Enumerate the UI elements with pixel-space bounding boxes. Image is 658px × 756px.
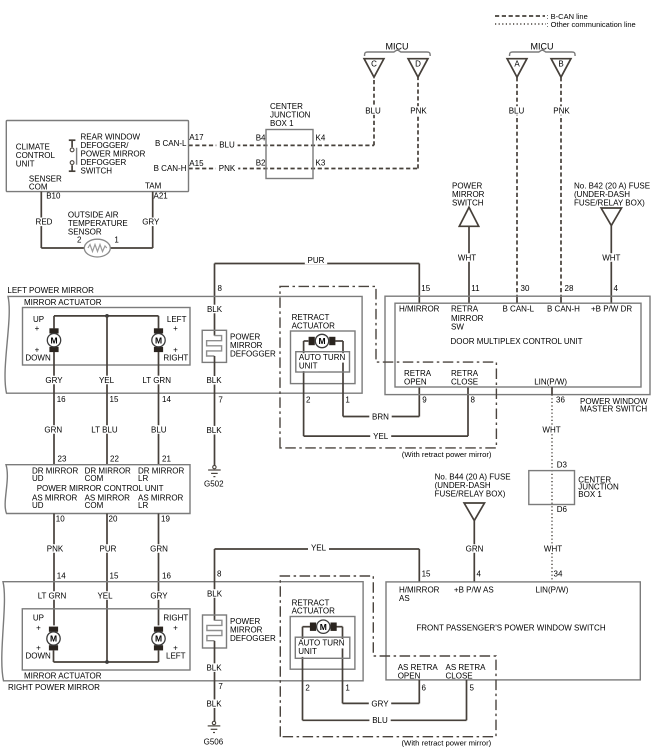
svg-text:5: 5	[470, 684, 475, 693]
svg-text:B: B	[558, 59, 563, 68]
svg-text:B10: B10	[46, 192, 61, 201]
wire YEL (defogger pin 8 to H/MIRROR AS pin 15)	[214, 549, 216, 621]
svg-text:GRY: GRY	[371, 699, 389, 708]
svg-text:A17: A17	[189, 133, 204, 142]
wire label BLK (below defogger right)	[203, 663, 224, 672]
wire label PNK (MICU D)	[407, 106, 429, 115]
svg-text:RETRA: RETRA	[451, 305, 479, 314]
svg-text:BRN: BRN	[372, 412, 389, 421]
svg-text:B CAN-H: B CAN-H	[154, 164, 187, 173]
wire label GRN	[42, 425, 64, 434]
connector triangle D	[408, 59, 428, 77]
retract motor wires (top)	[304, 340, 309, 342]
power window master switch outer box	[385, 296, 650, 394]
svg-text:POWER MIRROR CONTROL UNIT: POWER MIRROR CONTROL UNIT	[37, 484, 164, 493]
svg-text:FUSE/RELAY BOX): FUSE/RELAY BOX)	[574, 199, 645, 208]
junction dot (left actuator)	[105, 314, 109, 318]
svg-text:UP: UP	[33, 614, 44, 623]
motor stub down-left (right)	[53, 650, 55, 662]
svg-text:14: 14	[162, 395, 171, 404]
door multiplex control unit inner box	[395, 303, 641, 387]
wire BLK (defogger to G502)	[214, 356, 216, 465]
motor M right/left (right mirror)	[154, 627, 163, 632]
svg-text:LEFT: LEFT	[166, 652, 186, 661]
svg-text:GRN: GRN	[466, 544, 484, 553]
svg-text:G502: G502	[204, 480, 224, 489]
wire label WHT (pin 11)	[455, 253, 479, 262]
svg-text:14: 14	[57, 572, 66, 581]
svg-text:8: 8	[218, 284, 223, 293]
svg-text:A: A	[514, 59, 520, 68]
wire YEL (retract 2 to RETRA CLOSE 8)	[304, 435, 468, 437]
svg-text:AS: AS	[399, 594, 410, 603]
svg-text:30: 30	[521, 284, 530, 293]
svg-text:8: 8	[217, 570, 222, 579]
svg-text:BLU: BLU	[219, 141, 235, 150]
svg-text:COM: COM	[85, 474, 104, 483]
wire B-CAN-H PNK (climate A15 to K3 to MICU D)	[189, 168, 419, 170]
svg-text:PNK: PNK	[410, 106, 427, 115]
svg-text:RETRA: RETRA	[451, 369, 479, 378]
svg-text:BLK: BLK	[206, 700, 222, 709]
svg-text:SENSOR: SENSOR	[68, 228, 102, 237]
auto turn unit label (top)	[298, 353, 346, 362]
wire WHT (power mirror switch to pin 11)	[468, 226, 470, 303]
boundary (with retract power mirror) top	[280, 286, 496, 448]
wire LT GRN column (right motor down)	[158, 352, 160, 465]
retract motor wires (bottom)	[303, 626, 311, 628]
svg-text:CLOSE: CLOSE	[451, 378, 478, 387]
svg-text:ACTUATOR: ACTUATOR	[292, 321, 335, 330]
brace MICU 2	[510, 50, 576, 56]
wire WHT (fuse B42 to pin 4)	[610, 226, 612, 304]
wire label LT GRN	[140, 376, 174, 385]
svg-text:6: 6	[422, 684, 427, 693]
svg-text:G506: G506	[204, 738, 224, 747]
wire label YEL (retract)	[370, 432, 391, 441]
svg-text:M: M	[155, 634, 162, 644]
fuse No. B42 triangle	[601, 208, 621, 226]
center junction box 1 (bottom)	[529, 471, 575, 505]
svg-text:PNK: PNK	[553, 106, 570, 115]
wire label BLK (above defogger right)	[204, 589, 225, 598]
wire pin 8 (RETRA CLOSE)	[467, 387, 469, 436]
svg-text:UD: UD	[32, 474, 44, 483]
motor stub up-left	[53, 316, 55, 329]
svg-text:GRY: GRY	[142, 218, 160, 227]
svg-text:BLK: BLK	[207, 589, 223, 598]
svg-text:10: 10	[56, 515, 65, 524]
wire label BLU (MICU C)	[362, 106, 383, 115]
svg-text:M: M	[320, 622, 327, 632]
svg-text:UNIT: UNIT	[16, 159, 35, 168]
svg-text:23: 23	[58, 455, 67, 464]
svg-text:DEFOGGER: DEFOGGER	[230, 634, 276, 643]
left power mirror box	[5, 296, 362, 393]
power mirror control unit box	[5, 465, 190, 514]
motor M up/down (left mirror)	[49, 328, 58, 333]
rail wire (right actuator)	[54, 661, 159, 663]
svg-text:+: +	[35, 324, 40, 333]
svg-text:21: 21	[162, 455, 171, 464]
brace MICU 1	[365, 50, 431, 56]
wire GRN (fuse B44 to +B P/W AS pin 4)	[473, 521, 475, 582]
svg-text:DOOR MULTIPLEX CONTROL UNIT: DOOR MULTIPLEX CONTROL UNIT	[450, 337, 582, 346]
svg-text:BLK: BLK	[206, 664, 222, 673]
svg-text:M: M	[155, 335, 162, 345]
wire label GRN (fuse)	[463, 544, 485, 553]
svg-text:(With retract power mirror): (With retract power mirror)	[402, 739, 492, 748]
svg-text:+: +	[173, 324, 178, 333]
svg-text:8: 8	[471, 396, 476, 405]
svg-text:M: M	[50, 335, 57, 345]
svg-text:ACTUATOR: ACTUATOR	[292, 606, 335, 615]
svg-text:SWITCH: SWITCH	[81, 166, 113, 175]
connector triangle C	[364, 59, 384, 77]
wire GRN column	[158, 514, 160, 626]
wire RED (B10 to sensor pin 2)	[40, 192, 42, 248]
connector triangle B	[551, 59, 571, 77]
svg-text:28: 28	[565, 284, 574, 293]
wire LIN(P/W) WHT dotted (pin 36 to D3/D6 to pin 34)	[551, 387, 553, 395]
wire label GRY (right)	[148, 591, 170, 600]
svg-text:D3: D3	[557, 461, 568, 470]
svg-text:19: 19	[161, 515, 170, 524]
svg-text:CLOSE: CLOSE	[446, 672, 473, 681]
svg-text:OPEN: OPEN	[398, 672, 421, 681]
ground G506	[212, 721, 215, 724]
auto turn unit label (bottom)	[297, 639, 345, 648]
svg-text:15: 15	[110, 572, 119, 581]
svg-text:PNK: PNK	[47, 544, 64, 553]
wire label GRY	[43, 376, 65, 385]
wire B-CAN-L BLU (MICU A to pin 30)	[516, 77, 518, 296]
wire label BLU (MICU A)	[506, 106, 527, 115]
svg-text:11: 11	[471, 284, 480, 293]
svg-text:4: 4	[614, 284, 619, 293]
wire label PUR (column)	[97, 544, 119, 553]
svg-text:RIGHT POWER MIRROR: RIGHT POWER MIRROR	[8, 683, 100, 692]
svg-text:K3: K3	[316, 159, 326, 168]
svg-text:WHT: WHT	[458, 253, 476, 262]
svg-text:A21: A21	[154, 192, 169, 201]
svg-text:+: +	[173, 623, 178, 632]
svg-text:UD: UD	[32, 501, 44, 510]
svg-text:LT GRN: LT GRN	[38, 591, 67, 600]
wire label YEL	[96, 376, 117, 385]
power mirror defogger (left)	[202, 330, 226, 362]
svg-text:LR: LR	[138, 474, 148, 483]
wire label LT BLU	[88, 425, 121, 434]
ground G502	[213, 465, 216, 468]
retract actuator box (bottom)	[290, 617, 355, 670]
svg-text:YEL: YEL	[311, 543, 327, 552]
svg-text:BLK: BLK	[206, 426, 222, 435]
svg-text:YEL: YEL	[97, 591, 113, 600]
svg-text:BLK: BLK	[206, 376, 222, 385]
svg-text:SWITCH: SWITCH	[452, 199, 484, 208]
boundary (with retract power mirror) bottom	[280, 576, 496, 737]
svg-text:RIGHT: RIGHT	[163, 614, 188, 623]
svg-text:2: 2	[306, 396, 311, 405]
wire PNK column	[53, 514, 55, 626]
svg-text:BLU: BLU	[151, 425, 167, 434]
wire label PNK	[44, 544, 66, 553]
wire label YEL (right)	[95, 591, 116, 600]
auto turn unit box (top)	[296, 352, 350, 372]
wire BRN (retract 1 to RETRA OPEN 9)	[343, 416, 419, 418]
mirror actuator box (left)	[23, 308, 191, 366]
svg-text:16: 16	[57, 395, 66, 404]
svg-text:22: 22	[110, 455, 119, 464]
rear window defogger switch symbol	[69, 139, 76, 141]
fuse No. B44 triangle	[464, 503, 484, 521]
auto turn unit box (bottom)	[295, 637, 350, 658]
svg-text:15: 15	[110, 395, 119, 404]
svg-text:DOWN: DOWN	[26, 652, 52, 661]
wire YEL column (rail down)	[106, 316, 108, 465]
svg-text:BLK: BLK	[207, 305, 223, 314]
legend other communication line sample	[495, 23, 546, 25]
svg-text:7: 7	[218, 682, 223, 691]
svg-text:FUSE/RELAY BOX): FUSE/RELAY BOX)	[435, 489, 506, 498]
legend B-CAN line sample	[495, 15, 545, 17]
right power mirror box	[2, 582, 363, 681]
wire pin 6 (AS RETRA OPEN)	[418, 680, 420, 704]
svg-text:SW: SW	[451, 323, 464, 332]
wire pin 9 (RETRA OPEN)	[418, 387, 420, 417]
retract motor (top)	[309, 337, 315, 345]
wire BLU (retract 2 to AS RETRA CLOSE 5)	[303, 719, 467, 721]
svg-text:1: 1	[345, 396, 350, 405]
svg-text:A15: A15	[189, 159, 204, 168]
wire label BLK (to ground G506)	[203, 699, 224, 708]
svg-text:LIN(P/W): LIN(P/W)	[534, 377, 567, 386]
svg-text:GRY: GRY	[45, 376, 63, 385]
svg-text:15: 15	[421, 284, 430, 293]
wire label RED	[33, 218, 55, 227]
svg-text:1: 1	[345, 683, 350, 692]
svg-text:DEFOGGER: DEFOGGER	[230, 350, 276, 359]
motor M left/right (left mirror)	[154, 328, 163, 333]
svg-text:36: 36	[556, 396, 565, 405]
svg-text:(With retract power mirror): (With retract power mirror)	[402, 450, 492, 459]
wire label YEL (net)	[308, 543, 329, 552]
svg-text:2: 2	[305, 683, 310, 692]
center junction box 1 (top)	[266, 130, 313, 179]
svg-text:RED: RED	[36, 218, 53, 227]
svg-text:B CAN-L: B CAN-L	[503, 305, 535, 314]
svg-text:UNIT: UNIT	[299, 361, 318, 370]
svg-text:9: 9	[422, 396, 427, 405]
wire label BLU (B-CAN-L left)	[216, 141, 237, 150]
wire label WHT (pin 4)	[599, 253, 623, 262]
svg-text:BOX 1: BOX 1	[270, 119, 294, 128]
wire label WHT (LIN upper)	[540, 425, 564, 434]
climate control unit box	[6, 121, 188, 192]
wire B-CAN-L BLU (climate A17 to K4 to MICU C)	[189, 144, 375, 146]
wire B-CAN-H PNK (MICU B to pin 28)	[560, 77, 562, 296]
wire PUR (defogger pin 8 to H/MIRROR pin 15)	[214, 264, 216, 336]
connector triangle A	[507, 59, 527, 77]
svg-text:UP: UP	[33, 315, 44, 324]
svg-text:K4: K4	[316, 134, 326, 143]
power mirror switch connector triangle	[459, 207, 478, 226]
svg-text:OPEN: OPEN	[404, 378, 427, 387]
svg-text:PUR: PUR	[308, 256, 325, 265]
wire PUR column	[106, 514, 108, 663]
svg-text:BLU: BLU	[365, 106, 381, 115]
svg-text:2: 2	[77, 236, 82, 245]
wire label BRN	[369, 412, 391, 421]
wire label BLK (to ground G502)	[203, 426, 224, 435]
svg-text:15: 15	[422, 570, 431, 579]
wire GRY (A21 to sensor pin 1)	[152, 192, 154, 248]
outside air temperature sensor (thermistor)	[84, 239, 110, 257]
svg-text:+B P/W AS: +B P/W AS	[454, 586, 494, 595]
svg-text:WHT: WHT	[542, 425, 560, 434]
power mirror defogger (right)	[203, 615, 227, 648]
svg-text:YEL: YEL	[373, 432, 389, 441]
svg-text:C: C	[371, 59, 377, 68]
svg-text:D6: D6	[557, 505, 568, 514]
svg-text:COM: COM	[29, 183, 48, 192]
svg-text:LEFT: LEFT	[167, 315, 187, 324]
wire label GRN (column)	[148, 544, 170, 553]
svg-text:M: M	[318, 336, 325, 346]
retract motor (bottom)	[310, 623, 316, 631]
svg-text:16: 16	[162, 572, 171, 581]
junction dot (right actuator)	[105, 660, 109, 664]
svg-text:1: 1	[114, 236, 119, 245]
svg-text:+B P/W DR: +B P/W DR	[591, 305, 632, 314]
svg-text:34: 34	[554, 570, 563, 579]
svg-text:MIRROR ACTUATOR: MIRROR ACTUATOR	[24, 298, 102, 307]
svg-text:LEFT POWER MIRROR: LEFT POWER MIRROR	[7, 286, 94, 295]
wire label BLU (retract)	[369, 716, 390, 725]
svg-text:MASTER SWITCH: MASTER SWITCH	[580, 404, 647, 413]
svg-text:BLU: BLU	[509, 106, 525, 115]
svg-text:4: 4	[477, 570, 482, 579]
svg-text:: Other communication line: : Other communication line	[547, 20, 636, 29]
svg-text:H/MIRROR: H/MIRROR	[399, 305, 440, 314]
wire label PNK (B-CAN-H left)	[216, 164, 238, 173]
wire label PNK (MICU B)	[550, 106, 572, 115]
svg-text:UNIT: UNIT	[298, 647, 317, 656]
wire label LT GRN (right)	[35, 591, 69, 600]
svg-text:COM: COM	[85, 501, 104, 510]
svg-text:M: M	[50, 634, 57, 644]
svg-text:LT BLU: LT BLU	[91, 425, 118, 434]
svg-text:TAM: TAM	[145, 182, 162, 191]
svg-text:WHT: WHT	[544, 544, 562, 553]
motor M up/down (right mirror)	[49, 627, 58, 632]
wire label BLK (below defogger)	[203, 376, 224, 385]
svg-text:BOX 1: BOX 1	[578, 490, 602, 499]
svg-text:RETRA: RETRA	[404, 369, 432, 378]
motor stub up-right	[158, 316, 160, 329]
svg-text:B CAN-H: B CAN-H	[547, 305, 580, 314]
svg-text:MIRROR ACTUATOR: MIRROR ACTUATOR	[24, 672, 102, 681]
wire GRY column (left motor down)	[53, 352, 55, 465]
svg-text:LIN(P/W): LIN(P/W)	[536, 586, 569, 595]
svg-text:7: 7	[218, 396, 223, 405]
svg-text:GRN: GRN	[150, 544, 168, 553]
wire label GRY (retract)	[369, 699, 391, 708]
svg-text:MIRROR: MIRROR	[451, 314, 484, 323]
svg-text:PNK: PNK	[219, 164, 236, 173]
svg-text:PUR: PUR	[100, 544, 117, 553]
wire GRY (retract 1 to AS RETRA OPEN 6)	[343, 702, 420, 704]
svg-text:LR: LR	[138, 501, 148, 510]
svg-text:B4: B4	[256, 134, 266, 143]
front passenger power window switch box	[386, 582, 640, 680]
svg-text:B2: B2	[256, 159, 266, 168]
svg-text:YEL: YEL	[99, 376, 115, 385]
motor stub down-right (right)	[158, 650, 160, 662]
wire pin 5 (AS RETRA CLOSE)	[466, 680, 468, 720]
wire BLK (defogger right to G506)	[214, 641, 216, 721]
wire label BLU (mirror)	[148, 425, 169, 434]
svg-text:+: +	[36, 623, 41, 632]
wire label GRY (sensor)	[140, 218, 162, 227]
svg-text:20: 20	[109, 515, 118, 524]
svg-text:GRN: GRN	[44, 425, 62, 434]
svg-text:WHT: WHT	[602, 253, 620, 262]
svg-text:RIGHT: RIGHT	[163, 354, 188, 363]
svg-text:GRY: GRY	[150, 591, 168, 600]
wire label BLK (above defogger)	[204, 305, 225, 314]
svg-text:DOWN: DOWN	[25, 354, 51, 363]
svg-text:FRONT PASSENGER'S POWER WINDOW: FRONT PASSENGER'S POWER WINDOW SWITCH	[416, 623, 605, 632]
svg-text:LT GRN: LT GRN	[142, 376, 171, 385]
wire label PUR	[305, 256, 327, 265]
rail wire (left actuator)	[54, 315, 159, 317]
retract actuator box (top)	[291, 331, 356, 384]
svg-text:D: D	[415, 59, 421, 68]
wire label WHT (LIN lower)	[541, 544, 565, 553]
mirror actuator box (right)	[22, 609, 190, 670]
svg-text:BLU: BLU	[372, 716, 388, 725]
svg-text:B CAN-L: B CAN-L	[155, 139, 187, 148]
